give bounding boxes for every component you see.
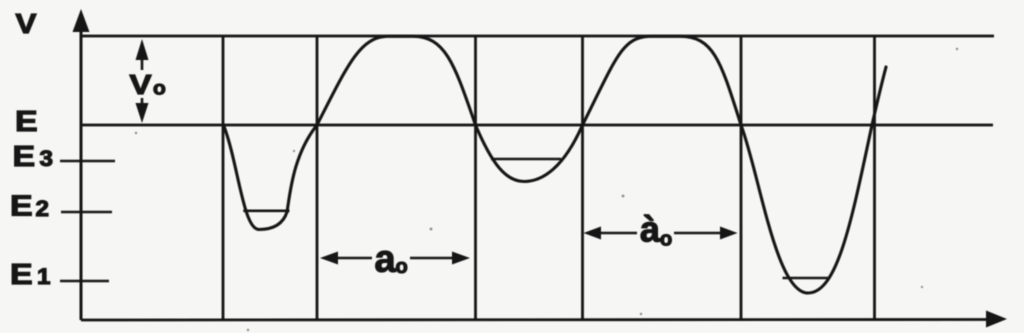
svg-text:E: E — [15, 104, 38, 137]
barrier wall 4 — [581, 36, 584, 320]
axis V (vertical) — [73, 9, 90, 320]
barrier wall 5 — [740, 36, 743, 320]
tick E3 on axis — [60, 160, 115, 163]
label E2 — [10, 189, 49, 222]
svg-text:E: E — [10, 189, 33, 222]
label a'0 — [640, 209, 672, 251]
energy level E2 in well 1 — [243, 210, 289, 213]
svg-text:o: o — [153, 78, 166, 99]
E line — [81, 124, 993, 127]
barrier wall 2 — [316, 36, 319, 320]
barrier wall 6 — [873, 36, 876, 320]
V0 double arrow — [136, 39, 149, 123]
svg-text:o: o — [396, 256, 408, 278]
svg-text:o: o — [660, 229, 672, 251]
svg-text:E: E — [10, 257, 33, 290]
svg-text:1: 1 — [37, 264, 51, 289]
energy level E3 in well 2 — [491, 158, 561, 161]
barrier wall 1 — [222, 36, 225, 320]
label V0 — [130, 69, 166, 100]
svg-text:V: V — [130, 69, 153, 100]
scan specks — [135, 48, 958, 331]
svg-text:3: 3 — [40, 146, 54, 171]
periodic potential curve — [224, 36, 887, 293]
a'0 dimension arrow — [584, 227, 738, 240]
svg-text:E: E — [13, 139, 36, 172]
tick E2 on axis — [61, 211, 112, 214]
label E3 — [13, 139, 54, 172]
label a0 — [375, 239, 408, 281]
label E1 — [10, 257, 51, 290]
svg-text:V: V — [16, 9, 37, 40]
svg-text:à: à — [640, 209, 661, 250]
a0 dimension arrow — [320, 252, 470, 265]
svg-text:2: 2 — [36, 196, 49, 221]
barrier wall 3 — [474, 36, 477, 320]
tick E1 on axis — [60, 280, 109, 283]
axis x (horizontal bottom) — [81, 311, 1007, 328]
top potential line V0 — [81, 35, 994, 38]
energy level E1 in well 3 — [783, 277, 830, 280]
svg-text:a: a — [375, 239, 397, 281]
